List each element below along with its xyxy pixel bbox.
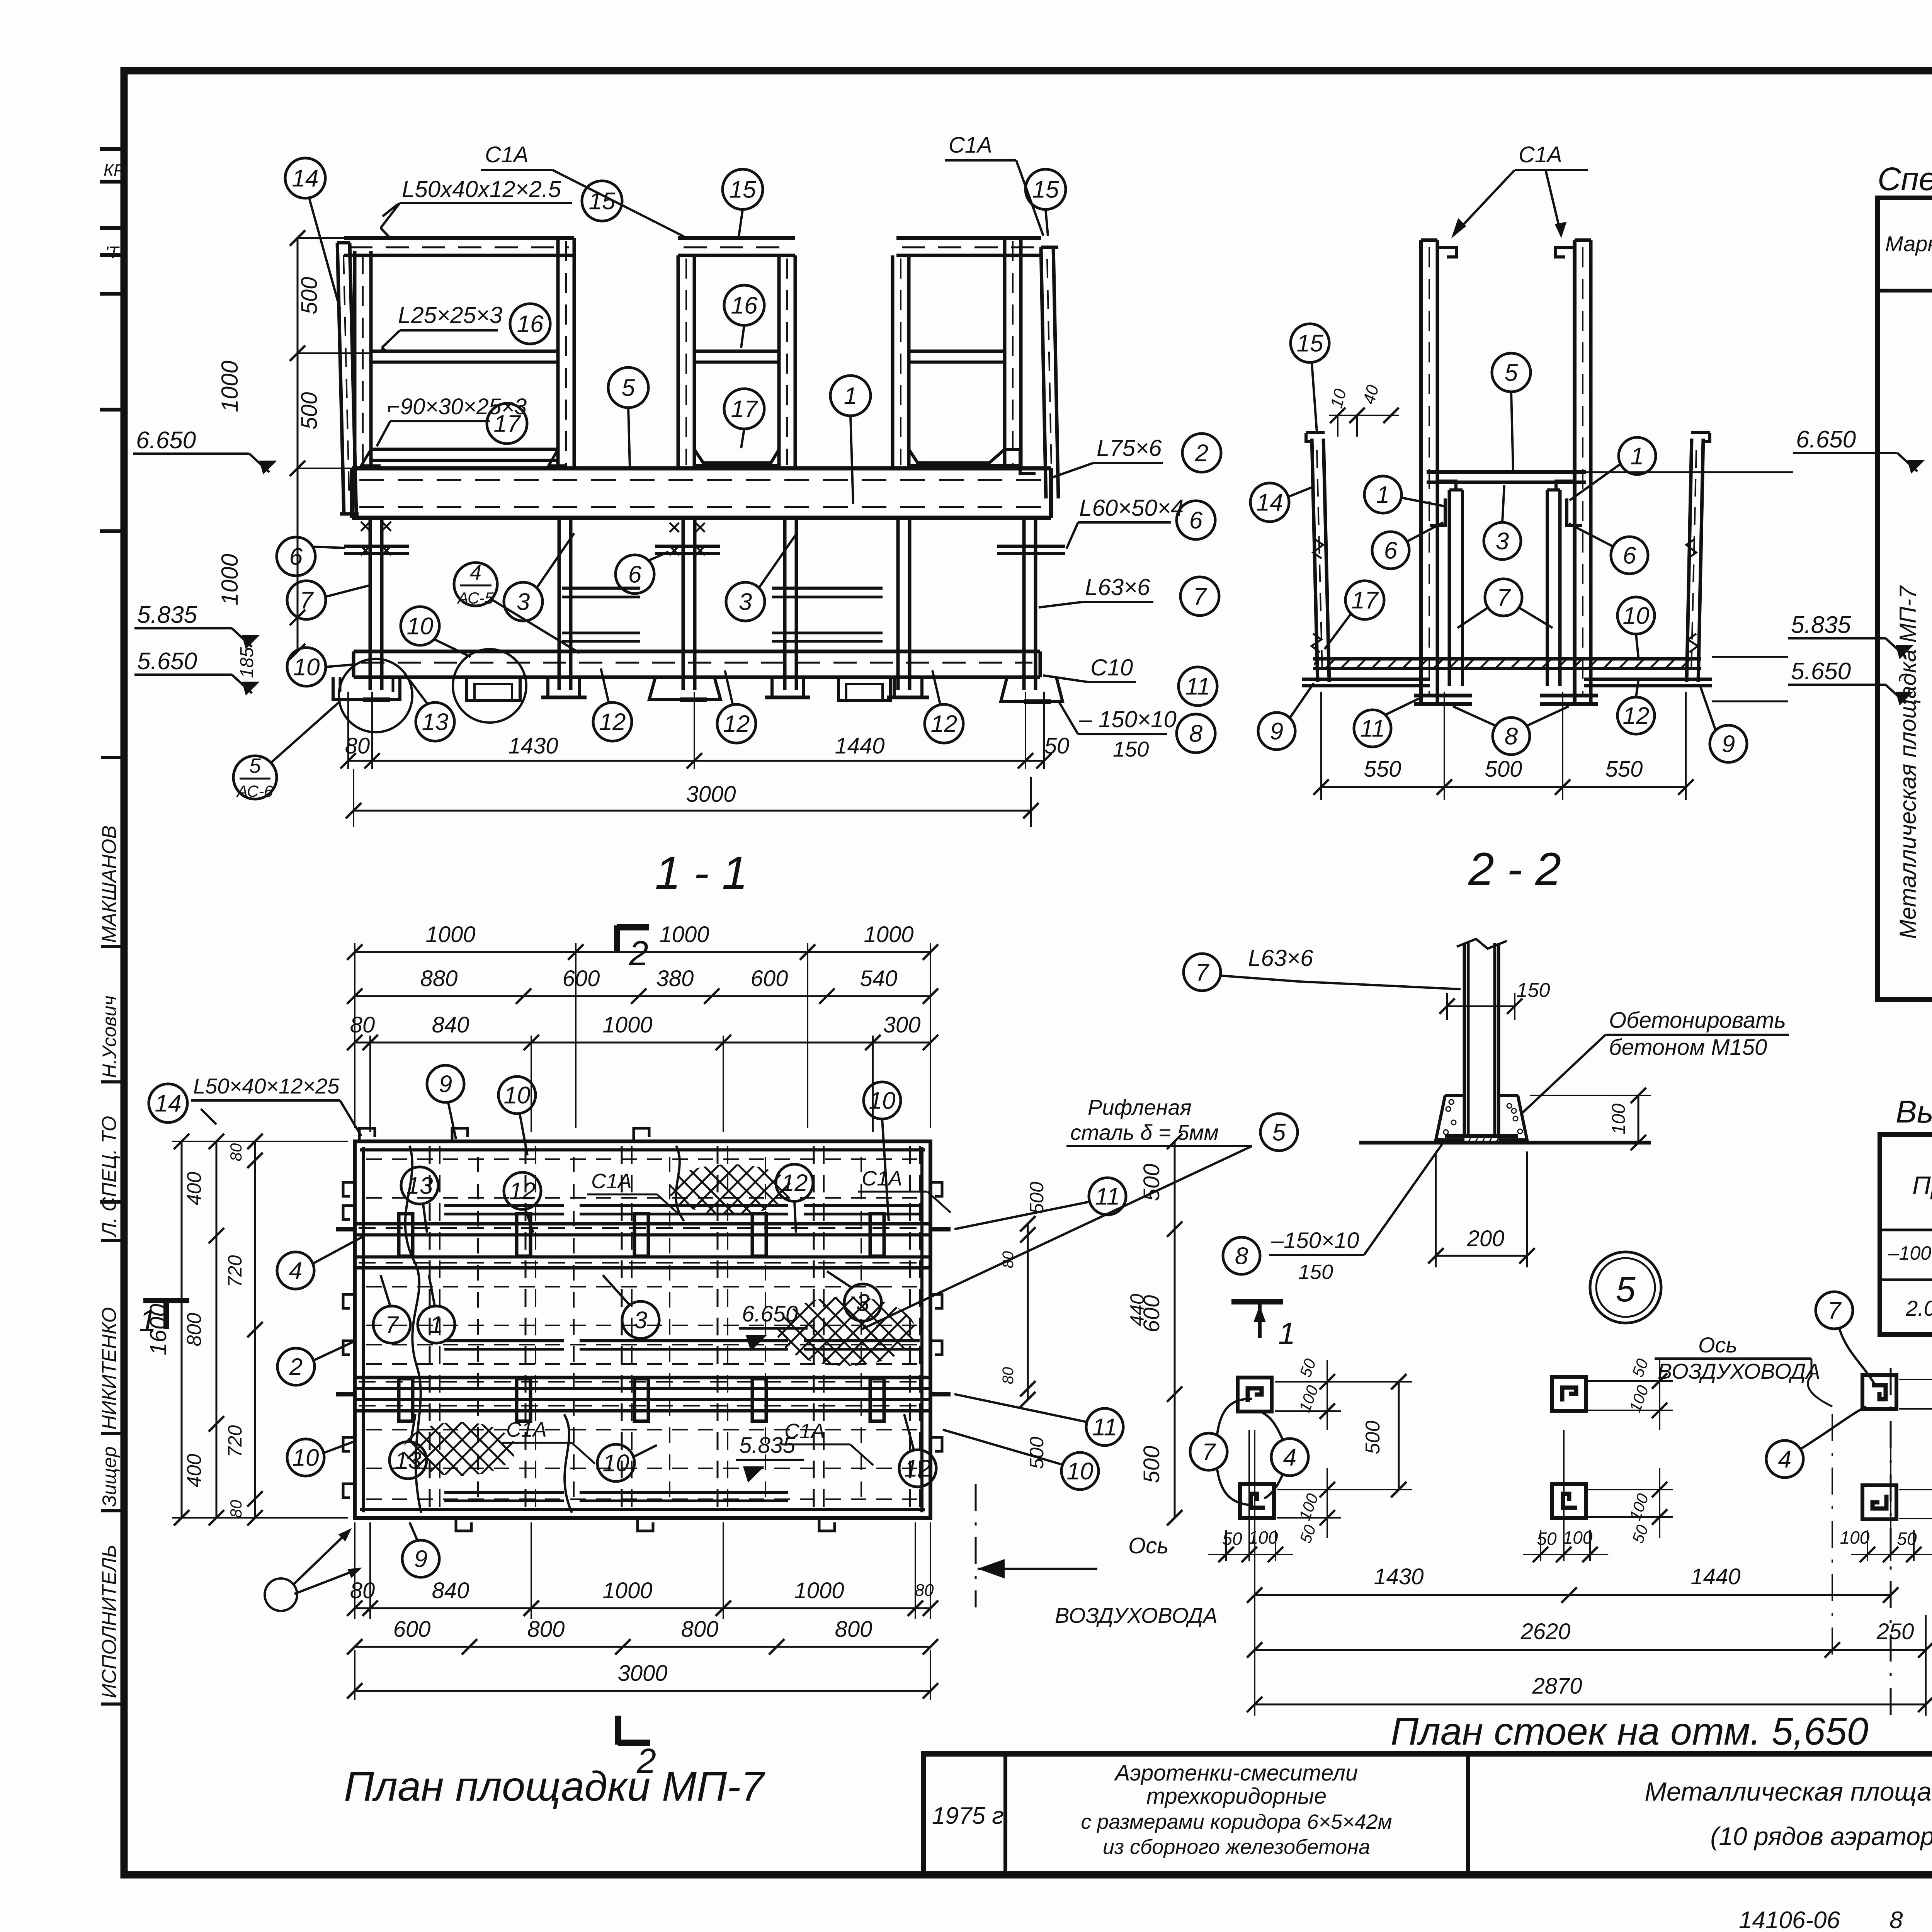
svg-text:3000: 3000: [686, 782, 736, 807]
svg-text:АС-5: АС-5: [456, 589, 494, 607]
circle 7 right posts: [1816, 1292, 1853, 1329]
svg-text:8: 8: [1889, 1907, 1903, 1932]
svg-text:10: 10: [1623, 603, 1650, 629]
section marker 2 (top of plan): [614, 925, 620, 951]
title block: [923, 1754, 1932, 1875]
svg-text:5.650: 5.650: [137, 648, 197, 675]
svg-text:7: 7: [1497, 585, 1511, 611]
svg-text:80: 80: [345, 733, 370, 759]
svg-text:9: 9: [414, 1546, 427, 1573]
svg-text:550: 550: [1605, 757, 1643, 782]
svg-text:10: 10: [293, 654, 320, 681]
svg-text:80: 80: [227, 1143, 245, 1161]
svg-text:С1А: С1А: [862, 1167, 902, 1190]
circle 6 mid: [616, 555, 654, 594]
plan label circles: [149, 1084, 187, 1122]
platform edge beam in 2-2: [1427, 470, 1586, 474]
svg-text:МАКШАНОВ: МАКШАНОВ: [98, 825, 121, 943]
circle 4 / AC-5: [454, 563, 497, 606]
svg-text:500: 500: [1026, 1437, 1048, 1469]
svg-text:15: 15: [1297, 330, 1323, 357]
svg-text:12: 12: [509, 1178, 536, 1205]
intermediate aerator dashed lines: [477, 1157, 479, 1502]
circle 10 upper: [401, 607, 439, 645]
svg-text:15: 15: [730, 177, 756, 203]
svg-text:1000: 1000: [217, 554, 243, 605]
svg-text:–100×4: –100×4: [1888, 1242, 1932, 1264]
svg-text:80: 80: [227, 1500, 245, 1518]
longitudinal dashed aerator lines: [366, 1158, 919, 1160]
svg-text:80: 80: [915, 1581, 934, 1600]
svg-text:11: 11: [1092, 1414, 1117, 1441]
svg-text:7: 7: [385, 1312, 400, 1338]
svg-text:5.650: 5.650: [1791, 658, 1851, 685]
rung rail left pos3: [562, 587, 640, 590]
svg-text:3: 3: [634, 1307, 647, 1334]
svg-text:1440: 1440: [835, 733, 884, 759]
svg-text:Л. СПЕЦ. ТО: Л. СПЕЦ. ТО: [98, 1116, 121, 1238]
svg-text:100: 100: [1248, 1527, 1278, 1548]
svg-text:(10 рядов аэраторов): (10 рядов аэраторов): [1710, 1822, 1932, 1850]
svg-text:План стоек на отм. 5,650: План стоек на отм. 5,650: [1391, 1710, 1868, 1753]
post dim whiskers P6: [1899, 1489, 1932, 1490]
circle 17 (2-2): [1345, 581, 1384, 619]
walkway band upper: [355, 1222, 930, 1226]
svg-text:15: 15: [1032, 177, 1059, 203]
svg-text:1000: 1000: [794, 1578, 844, 1603]
top inner angle caps: [1437, 247, 1457, 257]
circle 15 mid: [723, 169, 763, 209]
circle 3 right: [726, 582, 765, 621]
svg-text:ИСПОЛНИТЕЛЬ: ИСПОЛНИТЕЛЬ: [98, 1545, 121, 1699]
post dim whiskers P4: [1588, 1489, 1673, 1490]
svg-text:7: 7: [1202, 1439, 1216, 1466]
svg-text:L63×6: L63×6: [1248, 945, 1313, 971]
svg-text:17: 17: [731, 396, 759, 423]
svg-text:– 150×10: – 150×10: [1079, 706, 1177, 732]
svg-text:840: 840: [432, 1578, 469, 1603]
circle 1 beam: [830, 376, 871, 416]
svg-text:Прокат: Прокат: [1912, 1171, 1932, 1199]
svg-text:1000: 1000: [659, 922, 709, 947]
post P6: [1862, 1485, 1896, 1519]
svg-text:2 - 2: 2 - 2: [1468, 843, 1561, 895]
svg-text:185: 185: [237, 647, 257, 678]
svg-text:3: 3: [739, 589, 752, 616]
heavy posts in plan: [399, 1214, 413, 1256]
svg-text:–150×10: –150×10: [1271, 1228, 1359, 1253]
post dim whiskers P2: [1277, 1489, 1376, 1490]
circle 12 c: [925, 704, 963, 743]
circle 9 right (2-2): [1710, 725, 1747, 762]
circle 5 (2-2): [1492, 353, 1531, 392]
svg-text:5: 5: [1505, 360, 1518, 386]
frame C mid rail: [909, 350, 1005, 353]
svg-text:80: 80: [350, 1012, 375, 1037]
plan right dims: [1027, 1224, 1029, 1400]
post dim whiskers P1: [1275, 1381, 1376, 1383]
frame A mid rail pos16: [371, 350, 558, 353]
svg-text:1 - 1: 1 - 1: [655, 847, 748, 899]
svg-text:L63×6: L63×6: [1085, 574, 1150, 600]
plan top dims: [354, 943, 355, 1128]
svg-text:2: 2: [1195, 440, 1208, 467]
svg-text:720: 720: [224, 1425, 246, 1458]
svg-text:880: 880: [420, 966, 458, 991]
svg-text:Обетонировать: Обетонировать: [1609, 1008, 1786, 1033]
big detail circle left (AC-6 area): [339, 659, 412, 732]
svg-text:Марка: Марка: [1885, 231, 1932, 256]
svg-text:3: 3: [1496, 528, 1509, 555]
svg-text:1430: 1430: [508, 733, 558, 759]
svg-text:8: 8: [1505, 723, 1518, 750]
frame A right post: [556, 238, 560, 468]
svg-text:L25×25×3: L25×25×3: [398, 302, 502, 328]
big detail circle mid (AC-5 area): [453, 649, 526, 723]
svg-text:600: 600: [393, 1617, 431, 1642]
svg-text:9: 9: [439, 1071, 452, 1098]
platform beam pos1/pos2 band: [352, 466, 1051, 471]
empty detail circle bottom left: [265, 1578, 297, 1611]
frame C top band: [896, 236, 1041, 240]
rung rail right pos3: [772, 587, 883, 590]
section marker 2 bottom: [615, 1716, 621, 1745]
svg-text:500: 500: [1139, 1446, 1164, 1483]
left vertical dim 1000 lower: [297, 468, 299, 651]
lower rung right: [772, 632, 883, 634]
dim line 80/1430/1440/50: [347, 692, 349, 769]
column feet / base plates pos8 pos11: [333, 677, 400, 700]
svg-text:80: 80: [1000, 1367, 1017, 1384]
post P4: [1552, 1484, 1586, 1518]
mid support angle pos6: [655, 545, 720, 548]
frame C right tilted profile pos14: [1041, 247, 1046, 498]
svg-text:6: 6: [1384, 537, 1398, 564]
frame A left tilted profile pos14: [337, 243, 344, 514]
big detail bubble 5: [1590, 1252, 1661, 1323]
svg-text:600: 600: [751, 966, 788, 991]
svg-text:10: 10: [504, 1082, 531, 1109]
edge clips right: [930, 1182, 942, 1196]
circle 6 left (2-2): [1372, 532, 1409, 569]
svg-text:440: 440: [1126, 1294, 1148, 1326]
svg-text:12: 12: [781, 1170, 808, 1197]
angle brackets pos1 on chords: [1430, 498, 1445, 526]
svg-text:7: 7: [1196, 959, 1210, 986]
svg-text:4: 4: [470, 561, 481, 584]
circle 10 left: [287, 648, 326, 686]
circle 16 frame B: [724, 285, 764, 325]
svg-text:с размерами коридора 6×5×42м: с размерами коридора 6×5×42м: [1081, 1810, 1392, 1833]
svg-text:6: 6: [628, 561, 642, 588]
svg-text:7: 7: [1193, 583, 1207, 610]
svg-text:380: 380: [656, 966, 694, 991]
svg-text:5: 5: [249, 754, 261, 777]
frame C left post: [891, 255, 895, 468]
svg-text:500: 500: [1139, 1164, 1164, 1201]
post dim whiskers P5: [1899, 1379, 1932, 1380]
section marker 1: [1231, 1299, 1283, 1304]
frame B left post: [677, 255, 680, 468]
svg-text:С1А: С1А: [1519, 142, 1562, 167]
svg-text:3000: 3000: [617, 1661, 667, 1686]
plan outer rect: [355, 1141, 930, 1518]
post dim whiskers P3: [1588, 1380, 1673, 1382]
circle 12 a: [593, 702, 632, 741]
svg-text:50: 50: [1537, 1529, 1557, 1549]
svg-text:300: 300: [883, 1012, 921, 1037]
svg-text:11: 11: [1185, 673, 1210, 700]
central column left chord pos1: [1419, 240, 1423, 702]
svg-text:9: 9: [1722, 731, 1735, 758]
svg-text:800: 800: [183, 1313, 206, 1347]
circle 7 + L63x6 label: [1184, 954, 1221, 991]
svg-text:1440: 1440: [1690, 1564, 1740, 1589]
svg-text:2870: 2870: [1532, 1673, 1582, 1699]
svg-text:4: 4: [289, 1258, 302, 1284]
svg-text:150: 150: [1113, 737, 1149, 761]
svg-text:трехкоридорные: трехкоридорные: [1146, 1784, 1327, 1809]
svg-text:1000: 1000: [602, 1012, 652, 1037]
svg-text:17: 17: [494, 411, 521, 437]
svg-text:8: 8: [1235, 1243, 1248, 1270]
svg-text:100: 100: [1563, 1527, 1593, 1548]
svg-text:16: 16: [731, 293, 758, 319]
svg-text:800: 800: [527, 1617, 565, 1642]
side panel right pos14: [1687, 439, 1692, 682]
arrow to band: [381, 228, 389, 237]
svg-text:500: 500: [1026, 1182, 1048, 1214]
frame A lower rail pos17: [371, 448, 558, 451]
svg-text:400: 400: [183, 1454, 206, 1488]
margin ticks left: [100, 147, 128, 151]
svg-text:14: 14: [1257, 490, 1283, 516]
svg-text:'Т: 'Т: [105, 243, 120, 262]
post P3: [1552, 1377, 1586, 1411]
svg-text:1: 1: [1376, 482, 1389, 509]
svg-text:6.650: 6.650: [1796, 426, 1856, 453]
right support angle pos6: [997, 545, 1065, 548]
svg-text:13: 13: [395, 1447, 422, 1474]
circle 5/AC-6 bottom left: [233, 756, 277, 799]
edge clips top: [359, 1128, 375, 1141]
circle 5 platform: [608, 367, 648, 408]
circle 1 right (2-2): [1619, 437, 1656, 474]
dim 2620/250: [1255, 1649, 1926, 1651]
circle 7 left: [287, 581, 326, 619]
svg-text:600: 600: [563, 966, 600, 991]
svg-text:Металлическая площадка мп-7: Металлическая площадка мп-7: [1645, 1777, 1932, 1806]
svg-text:2.0: 2.0: [1905, 1296, 1932, 1320]
label -150x10 / 8 (detail): [1223, 1237, 1260, 1274]
columns below platform pos7/pos12: [369, 518, 372, 690]
svg-text:800: 800: [681, 1617, 719, 1642]
500 dim between P1 P2: [1376, 1381, 1412, 1383]
dim line 3000: [354, 810, 1031, 812]
svg-text:1000: 1000: [864, 922, 913, 947]
svg-text:5: 5: [622, 375, 635, 401]
post P2: [1240, 1484, 1274, 1518]
svg-text:1975 г.: 1975 г.: [932, 1803, 1010, 1829]
svg-text:1430: 1430: [1374, 1564, 1423, 1589]
svg-text:ВОЗДУХОВОДА: ВОЗДУХОВОДА: [1658, 1359, 1820, 1383]
svg-text:11: 11: [1095, 1184, 1120, 1210]
circle 1 left (2-2): [1364, 476, 1401, 513]
ground line: [1359, 1141, 1651, 1145]
svg-text:С10: С10: [1090, 655, 1133, 680]
svg-text:1000: 1000: [602, 1578, 652, 1603]
svg-text:Аэротенки-смесители: Аэротенки-смесители: [1114, 1760, 1358, 1786]
svg-text:500: 500: [1362, 1421, 1384, 1454]
svg-text:50: 50: [1897, 1529, 1917, 1549]
svg-text:800: 800: [835, 1617, 872, 1642]
svg-text:L75×6: L75×6: [1097, 435, 1162, 461]
svg-text:Зищер: Зищер: [99, 1446, 120, 1507]
circle 12 b: [717, 704, 756, 743]
svg-text:17: 17: [1352, 587, 1379, 614]
svg-text:1: 1: [844, 383, 857, 410]
svg-text:14: 14: [155, 1090, 182, 1117]
svg-text:С1А: С1А: [506, 1418, 547, 1441]
svg-text:11: 11: [1360, 716, 1385, 742]
svg-text:550: 550: [1364, 757, 1401, 782]
mid caps at platform level: [1437, 481, 1456, 490]
plan left dims: [172, 1141, 348, 1142]
edge clips bottom: [456, 1518, 471, 1531]
svg-text:500: 500: [297, 277, 322, 315]
svg-text:100: 100: [1609, 1104, 1629, 1134]
svg-text:9: 9: [1270, 718, 1283, 745]
weld x-marks: [361, 522, 370, 531]
section marker 1 left: [143, 1298, 189, 1303]
svg-text:150: 150: [1517, 979, 1550, 1002]
post P5: [1862, 1375, 1896, 1409]
svg-text:L50×40×12×25: L50×40×12×25: [193, 1074, 340, 1098]
svg-text:12: 12: [599, 709, 626, 736]
circle 15 (2-2): [1291, 324, 1329, 362]
label circle 14 left: [285, 158, 325, 198]
svg-text:1: 1: [1278, 1316, 1296, 1350]
concrete dots: [1446, 1107, 1451, 1111]
C8 channel rails middle strip: [444, 1339, 564, 1342]
svg-text:Ось: Ось: [1128, 1533, 1169, 1558]
posts axis dash-dot: [1890, 1368, 1892, 1716]
svg-text:5.835: 5.835: [137, 602, 197, 628]
transverse beams dashed (vertical): [429, 1146, 431, 1513]
svg-text:8: 8: [1189, 721, 1203, 747]
svg-text:10: 10: [603, 1450, 629, 1477]
svg-text:НИКИТЕНКО: НИКИТЕНКО: [98, 1307, 121, 1430]
dim 550/500/550: [1320, 692, 1322, 800]
svg-text:13: 13: [422, 709, 449, 736]
edge clips left: [343, 1182, 355, 1196]
circle 4 right posts: [1766, 1440, 1803, 1478]
svg-text:540: 540: [860, 966, 898, 991]
C8 channel rails upper strip: [444, 1204, 564, 1207]
svg-text:720: 720: [224, 1255, 246, 1287]
circle 4 left posts: [1271, 1439, 1308, 1476]
cross-hatch patches: [668, 1164, 792, 1214]
frame B right post: [777, 255, 781, 468]
svg-text:ВОЗДУХОВОДА: ВОЗДУХОВОДА: [1055, 1603, 1218, 1628]
lower rung left: [562, 632, 640, 634]
svg-text:6.650: 6.650: [742, 1301, 798, 1327]
svg-text:Н.Усович: Н.Усович: [99, 996, 120, 1078]
circle 14 (2-2): [1250, 483, 1289, 522]
frame C right post: [1003, 238, 1007, 468]
svg-text:6: 6: [1189, 507, 1203, 534]
axis arrow (Ось воздуховода) of plan: [978, 1568, 1097, 1570]
circle 6 right (2-2): [1611, 537, 1648, 574]
svg-text:2: 2: [629, 934, 648, 973]
svg-text:L60×50×4: L60×50×4: [1079, 495, 1184, 521]
dim 200 bottom: [1435, 1151, 1437, 1267]
circle 3 left: [504, 582, 543, 621]
svg-text:16: 16: [517, 311, 544, 338]
base plate: [1445, 1134, 1518, 1138]
svg-text:L50x40x12×2.5: L50x40x12×2.5: [402, 176, 561, 202]
frame B mid rail: [694, 350, 779, 353]
break wavy lines in plan: [405, 1146, 421, 1513]
svg-text:15: 15: [589, 188, 616, 215]
zigzag break marks on panels: [1313, 539, 1323, 558]
frame A left post: [353, 251, 357, 468]
svg-text:С1А: С1А: [485, 142, 529, 167]
inner posts pos3/pos7: [1448, 490, 1451, 686]
svg-text:сталь δ = 5мм: сталь δ = 5мм: [1070, 1120, 1219, 1145]
column shaft: [1463, 943, 1466, 1136]
side rails sticking out (pos11): [336, 1227, 355, 1231]
floor band with hatch pos10/pos12: [1313, 657, 1701, 661]
svg-text:10: 10: [407, 613, 434, 640]
svg-text:из сборного железобетона: из сборного железобетона: [1103, 1835, 1370, 1859]
svg-text:бетоном М150: бетоном М150: [1609, 1035, 1767, 1060]
left support angle pos6: [344, 545, 409, 548]
svg-text:3: 3: [517, 589, 530, 616]
svg-text:2620: 2620: [1520, 1619, 1570, 1644]
svg-text:2: 2: [289, 1354, 303, 1381]
C8 channel rails lower strip: [444, 1491, 564, 1494]
svg-text:100: 100: [1840, 1527, 1870, 1548]
circle 10 (2-2): [1617, 597, 1655, 634]
bottom small dims 50/100 under posts: [1225, 1530, 1227, 1561]
dim 100 right: [1530, 1095, 1651, 1096]
svg-text:5: 5: [1272, 1119, 1286, 1146]
central column right chord pos1: [1573, 240, 1577, 702]
svg-text:1: 1: [139, 1303, 156, 1338]
circle 7 with two leaders (2-2): [1485, 579, 1522, 616]
frame C lower trough: [909, 449, 1005, 463]
svg-text:12: 12: [1623, 703, 1650, 730]
svg-text:Металлическая площадка МП-7: Металлическая площадка МП-7: [1895, 585, 1921, 939]
bottom channel band pos10: [354, 650, 1040, 653]
posts plan dims 1430/1440: [1254, 1430, 1255, 1716]
svg-text:АС-6: АС-6: [236, 782, 273, 800]
svg-text:6: 6: [1623, 543, 1636, 569]
svg-text:1000: 1000: [425, 922, 475, 947]
post P1: [1238, 1378, 1272, 1412]
svg-text:1: 1: [1631, 443, 1644, 470]
svg-text:14106-06: 14106-06: [1739, 1907, 1840, 1932]
svg-text:13: 13: [406, 1173, 433, 1199]
svg-text:50: 50: [1044, 733, 1070, 759]
svg-text:250: 250: [1876, 1619, 1914, 1644]
svg-text:840: 840: [432, 1012, 469, 1037]
frame B lower trough pos17: [694, 449, 779, 463]
svg-text:12: 12: [905, 1456, 931, 1482]
svg-text:400: 400: [183, 1172, 206, 1206]
small top dims 10/40: [1329, 415, 1399, 416]
